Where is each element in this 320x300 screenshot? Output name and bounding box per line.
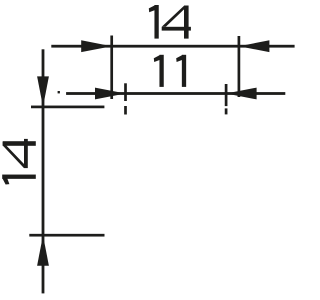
dash below left 11 extension line xyxy=(124,106,127,115)
extension line bottom (y=235.2) xyxy=(29,234,104,237)
arrowhead right of 11 dimension xyxy=(226,88,257,100)
arrowhead left of 14 dimension xyxy=(81,40,112,52)
extension line for 11 right (x=226.1) xyxy=(225,84,228,106)
dimension line for 14 (top horizontal) xyxy=(51,45,294,48)
label 14 (left, rotated 90) xyxy=(2,139,36,185)
extension line for 11 left (x=125.5) xyxy=(124,83,127,101)
extension line left (x=111.7) xyxy=(110,36,113,100)
arrowhead top of vertical 14 dimension xyxy=(37,76,49,107)
dimension line for vertical 14 (left) xyxy=(42,49,45,293)
arrowhead bottom of vertical 14 dimension xyxy=(37,235,49,266)
dimension line for 11 (second horizontal) xyxy=(66,92,285,95)
arrowhead left of 11 dimension xyxy=(95,88,126,100)
arrowhead right of 14 dimension xyxy=(239,40,270,52)
label 11 xyxy=(154,55,186,87)
extension line right (x=238.9) xyxy=(238,36,241,97)
extension line top (y=106.9) xyxy=(31,106,104,109)
label 14 (top) xyxy=(149,5,191,39)
short dash at left end of 11 dimension line xyxy=(58,91,60,93)
dash below right 11 extension line xyxy=(225,108,228,114)
